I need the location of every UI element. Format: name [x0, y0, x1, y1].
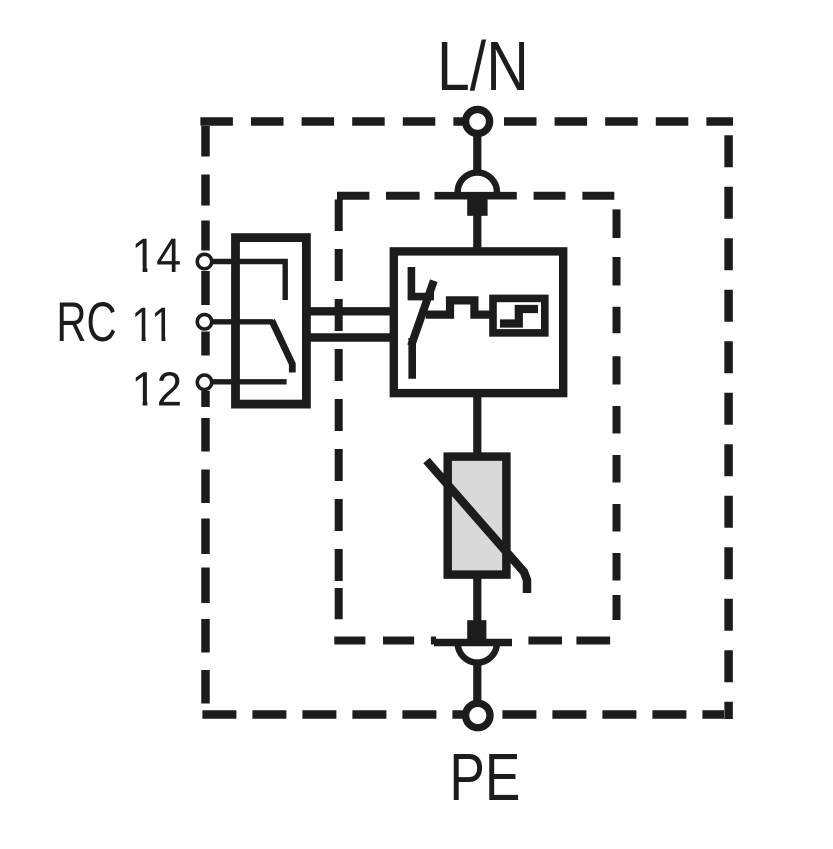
monitor step symbol	[500, 309, 538, 324]
wire disconnector box to varistor	[473, 393, 481, 458]
top plug-in connection pin	[467, 199, 487, 216]
contact 14 lead with hook	[212, 262, 285, 301]
bottom plug-in connection base bar	[434, 639, 512, 647]
terminal 12 circle	[197, 375, 211, 389]
inner dashed module boundary bottom edge	[334, 637, 610, 645]
inner dashed module boundary top edge	[337, 192, 614, 200]
svg-text:11: 11	[131, 299, 174, 352]
svg-text:12: 12	[131, 364, 182, 417]
contact 12 lead	[212, 379, 287, 384]
terminal L/N circle	[466, 110, 490, 134]
remote contact box	[236, 238, 307, 405]
switch lower lead	[408, 338, 416, 379]
wire varistor to bottom pin	[473, 574, 481, 621]
svg-text:RC: RC	[56, 290, 116, 353]
disconnector/monitoring box U1	[394, 251, 563, 393]
inner dashed module boundary left edge	[335, 200, 343, 620]
bottom plug-in connection pin	[467, 620, 486, 642]
outer dashed enclosure top edge	[200, 117, 733, 126]
svg-text:L/N: L/N	[437, 27, 529, 105]
outer dashed enclosure bottom edge	[202, 710, 724, 719]
linkage line lower	[306, 333, 394, 341]
svg-text:14: 14	[131, 230, 181, 283]
linkage line upper	[306, 307, 394, 315]
varistor diagonal stroke	[427, 461, 528, 594]
switch blade	[412, 285, 432, 343]
glyph serif trim (digit 1 feet)	[134, 266, 173, 407]
bottom plug-in connection dome	[458, 643, 497, 663]
varistor RV body	[448, 457, 507, 575]
changeover blade 11-12	[272, 321, 293, 373]
monitor window frame	[493, 298, 545, 333]
wire top pin to disconnector box	[473, 215, 481, 252]
outer dashed enclosure right edge	[724, 135, 733, 719]
wire L/N terminal to top plug-in dome	[473, 134, 481, 172]
contact 11 lead	[212, 319, 273, 324]
monitoring signal trace	[426, 300, 493, 314]
switch fixed contact (L-stub)	[411, 267, 434, 297]
inner dashed module boundary right edge	[613, 209, 621, 620]
wire bottom dome to PE terminal	[473, 664, 481, 701]
top plug-in connection dome	[458, 173, 497, 193]
outer dashed enclosure left edge	[201, 126, 210, 704]
terminal 11 circle	[197, 315, 211, 329]
terminal 14 circle	[197, 254, 211, 268]
top plug-in connection base bar	[435, 192, 517, 200]
terminal PE circle	[466, 703, 490, 727]
svg-text:PE: PE	[449, 740, 520, 815]
